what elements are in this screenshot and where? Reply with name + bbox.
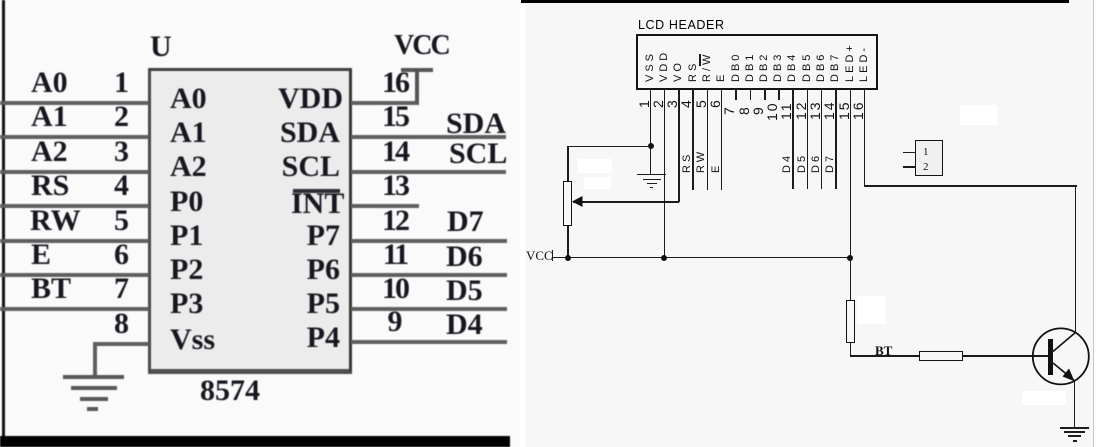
junction pot bottom on VCC rail <box>565 255 571 261</box>
header pin name DB3 <box>773 52 784 82</box>
scan bottom black bar <box>0 436 510 447</box>
IC pin name P3 <box>170 290 203 318</box>
IC part number 8574 <box>200 377 260 405</box>
IC pin name P2 <box>170 256 203 284</box>
pin 7 stub <box>735 89 737 100</box>
pin number 7 <box>114 275 128 303</box>
BT label <box>875 344 892 357</box>
wire pot top vertical <box>567 146 569 182</box>
IC pin name VDD <box>278 85 340 113</box>
header pin name VSS <box>645 51 656 82</box>
ground G3 bar2 <box>1064 431 1085 433</box>
pin 2 stub <box>664 89 666 258</box>
pin number 6 <box>114 241 128 269</box>
pin number 8 <box>737 105 751 115</box>
net label SDA <box>446 110 506 138</box>
pin 5 stub <box>707 89 709 190</box>
wire emitter vertical <box>1074 380 1076 427</box>
wire label RS <box>682 152 693 173</box>
white patch 5 <box>960 105 997 125</box>
white patch 4 <box>1022 391 1066 405</box>
Q1 base bar <box>1048 339 1053 375</box>
VCC rail tick <box>401 68 433 72</box>
pin number 1 <box>637 98 651 108</box>
wire pin1 to pot top horizontal <box>567 146 651 148</box>
wire BT node to R2 <box>850 355 920 357</box>
pin number 6 <box>708 98 722 108</box>
label U <box>150 33 172 61</box>
net label RW <box>30 207 81 235</box>
pin number 15 <box>382 103 408 131</box>
header pin name DB2 <box>759 52 770 82</box>
header pin name DB6 <box>816 52 827 82</box>
header pin name DB0 <box>731 52 742 82</box>
pin number 15 <box>837 100 851 120</box>
net label D6 <box>446 243 483 271</box>
IC pin name INT overline <box>293 189 340 193</box>
Q1 emitter diagonal <box>1053 363 1074 380</box>
IC pin name A0 <box>170 85 207 113</box>
pin number 4 <box>679 98 693 108</box>
ground G1 bar1 <box>63 375 124 379</box>
wire SCL pin14 <box>351 170 506 174</box>
wire label RW <box>696 149 707 173</box>
net label D4 <box>446 311 483 339</box>
wire A0 pin1 <box>0 101 149 105</box>
wire VDD riser to VCC <box>415 70 419 103</box>
wire A1 pin2 <box>0 135 149 139</box>
wire RW pin5 <box>0 239 149 243</box>
pin 15 stub <box>850 89 852 258</box>
header pin name DB1 <box>745 52 756 82</box>
net label E <box>31 241 51 269</box>
white patch 2 <box>584 177 611 189</box>
Q1 collector diagonal <box>1053 333 1075 352</box>
transistor Q1 <box>1020 315 1102 430</box>
wire D6 pin11 <box>351 273 507 277</box>
header pin name E <box>716 72 727 82</box>
net label RS <box>31 172 69 200</box>
pin number 16 <box>382 69 408 97</box>
wire D7 pin12 <box>351 239 507 243</box>
connector J2 pin1 stub <box>903 152 916 154</box>
connector J2 pin1 label <box>923 147 929 158</box>
IC pin name P7 <box>306 222 340 250</box>
header pin name VDD <box>659 50 670 82</box>
right panel right faint border <box>1093 0 1094 447</box>
ground G2 bar4 <box>650 187 653 189</box>
IC pin name P0 <box>170 188 203 216</box>
right panel background <box>525 0 1094 447</box>
net label SCL <box>449 140 507 168</box>
pin number 12 <box>794 100 808 120</box>
header pin name R/W overline <box>699 54 701 66</box>
header pin name DB7 <box>830 52 841 82</box>
wire R2 to Q1 base <box>963 355 1048 357</box>
pin number 11 <box>779 101 793 120</box>
header pin name DB4 <box>787 52 798 82</box>
pin number 11 <box>382 241 408 269</box>
header pin name LED+ <box>845 42 856 82</box>
pin number 16 <box>851 100 865 120</box>
ground G1 bar3 <box>80 397 108 401</box>
wire pot bottom vertical <box>567 226 569 258</box>
ground G2 bar3 <box>647 183 657 185</box>
white patch 3 <box>857 296 885 324</box>
header pin name VO <box>673 60 684 82</box>
net label A0 <box>31 69 68 97</box>
wire VCC rail to R1 <box>850 258 852 300</box>
pin 10 stub <box>778 89 780 100</box>
wire INT pin13 stub <box>351 204 419 208</box>
wire label D4 <box>782 153 793 173</box>
pin 8 stub <box>750 89 752 100</box>
net label D7 <box>447 208 484 236</box>
IC pin name P4 <box>306 324 340 352</box>
wire D4 pin9 <box>351 340 507 344</box>
wire pin8 to ground <box>93 342 149 346</box>
header pin name R/W <box>702 52 713 82</box>
net label D5 <box>446 277 483 305</box>
connector J2 box <box>915 140 943 176</box>
header pin name DB5 <box>802 52 813 82</box>
pin 12 stub <box>807 89 809 189</box>
pin number 1 <box>114 69 128 97</box>
label VCC left panel <box>394 31 449 61</box>
IC pin name Vss <box>170 326 215 354</box>
net label BT <box>31 275 71 303</box>
pin 16 stub <box>864 89 866 186</box>
header pin name LED- <box>859 45 870 82</box>
pin number 9 <box>382 308 408 336</box>
IC pin name SDA <box>278 119 340 147</box>
pin number 4 <box>114 172 128 200</box>
pin number 12 <box>382 207 408 235</box>
pin number 3 <box>114 138 128 166</box>
wire label E <box>711 163 722 173</box>
pot wiper arrowhead <box>572 196 584 207</box>
ground G2 bar2 <box>643 179 661 181</box>
header pin name RS <box>688 61 699 82</box>
pin number 10 <box>765 101 779 121</box>
resistor R2 horizontal body <box>919 351 963 361</box>
pin 14 stub <box>835 89 837 189</box>
wire pin16 horizontal <box>864 185 1077 187</box>
wire VDD pin16 <box>351 101 419 105</box>
resistor R1 vertical body <box>846 300 855 343</box>
pin 13 stub <box>821 89 823 189</box>
junction pin1 to pot <box>648 143 654 149</box>
junction pin2 on VCC rail <box>661 255 667 261</box>
wire R1 to BT node <box>850 343 852 356</box>
IC pin name A1 <box>170 119 207 147</box>
pin number 14 <box>382 138 408 166</box>
pin number 13 <box>382 172 408 200</box>
Q1 emitter arrowhead <box>1063 369 1075 382</box>
pin number 3 <box>665 98 679 108</box>
pin 9 stub <box>764 89 766 100</box>
ground G1 bar2 <box>71 386 117 390</box>
net label A1 <box>31 103 68 131</box>
wire collector vertical <box>1075 185 1077 333</box>
IC pin name P6 <box>306 256 340 284</box>
Q1 circle <box>1033 328 1089 384</box>
LCD HEADER title <box>638 19 725 32</box>
wire SDA pin15 <box>351 135 506 139</box>
scan left black border <box>2 0 5 441</box>
VCC rail left tick <box>552 250 554 261</box>
pin number 7 <box>722 105 736 115</box>
pin 6 stub <box>721 89 723 190</box>
wire label D5 <box>797 153 808 173</box>
net label A2 <box>31 138 68 166</box>
pin 3 stub <box>678 89 680 202</box>
ground G1 bar4 <box>87 407 98 411</box>
wire A2 pin3 <box>0 170 149 174</box>
ground G3 bar4 <box>1073 440 1077 442</box>
ground G3 bar1 <box>1060 427 1089 429</box>
pin number 5 <box>694 98 708 108</box>
VCC label right panel <box>526 249 553 262</box>
IC pin name SCL <box>278 153 340 181</box>
LCD header box J1 <box>636 34 878 90</box>
wire label D7 <box>825 153 836 173</box>
wire RS pin4 <box>0 204 149 208</box>
ground G3 bar3 <box>1068 435 1081 437</box>
pin 4 stub <box>692 89 694 190</box>
IC pin name A2 <box>170 153 207 181</box>
IC pin name INT <box>291 190 340 218</box>
junction pin15 on VCC rail <box>847 255 853 261</box>
pin number 14 <box>822 100 836 120</box>
wire E pin6 <box>0 273 149 277</box>
connector J2 pin2 label <box>923 162 929 173</box>
pin number 10 <box>382 275 408 303</box>
connector J2 pin2 stub <box>903 166 916 168</box>
VCC rail horizontal <box>552 257 851 259</box>
pin number 9 <box>751 105 765 115</box>
ground G2 bar1 <box>637 174 666 176</box>
IC pin name P1 <box>170 222 203 250</box>
wire pot wiper horizontal <box>573 201 679 203</box>
pin 11 stub <box>792 89 794 189</box>
wire label D6 <box>811 153 822 173</box>
pin 1 stub <box>650 89 652 174</box>
wire D5 pin10 <box>351 307 507 311</box>
pin number 13 <box>808 100 822 120</box>
right panel top black line <box>521 0 1069 3</box>
IC pin name P5 <box>306 290 340 318</box>
wire pin8 vertical drop <box>93 342 97 376</box>
pin number 5 <box>114 207 128 235</box>
pin number 2 <box>651 98 665 108</box>
left panel background <box>0 0 520 447</box>
pin number 8 <box>114 310 128 338</box>
potentiometer RV1 body <box>563 181 572 226</box>
wire BT pin7 <box>0 307 149 311</box>
IC U1 body <box>148 68 352 374</box>
pin number 2 <box>114 103 128 131</box>
white patch 1 <box>578 159 612 173</box>
